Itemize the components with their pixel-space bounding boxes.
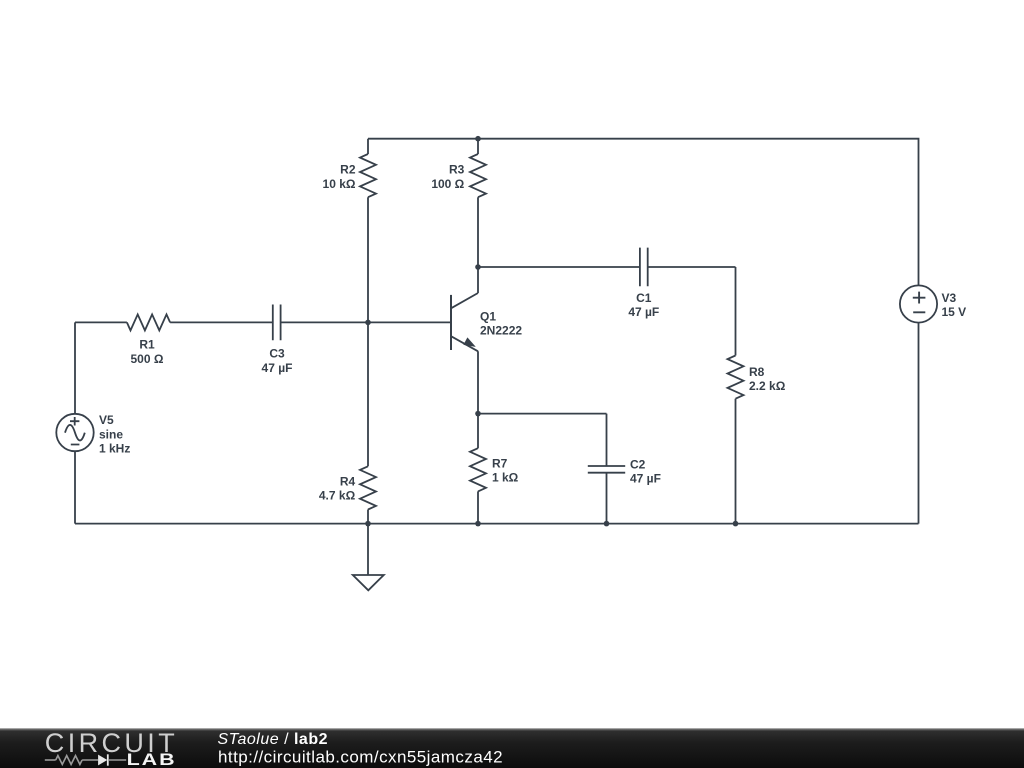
svg-text:100 Ω: 100 Ω (431, 177, 464, 191)
svg-text:10 kΩ: 10 kΩ (323, 177, 356, 191)
svg-text:R7: R7 (492, 456, 508, 470)
svg-text:2N2222: 2N2222 (480, 324, 522, 338)
svg-text:1 kΩ: 1 kΩ (492, 471, 519, 485)
svg-text:R1: R1 (139, 338, 155, 352)
svg-text:C1: C1 (636, 291, 652, 305)
svg-text:R4: R4 (340, 474, 356, 488)
svg-text:2.2 kΩ: 2.2 kΩ (749, 379, 786, 393)
svg-text:1 kHz: 1 kHz (99, 442, 130, 456)
svg-text:4.7 kΩ: 4.7 kΩ (319, 489, 356, 503)
svg-text:C2: C2 (630, 458, 646, 472)
svg-text:V5: V5 (99, 413, 114, 427)
svg-text:47 µF: 47 µF (630, 472, 661, 486)
svg-text:47 µF: 47 µF (628, 305, 659, 319)
svg-text:R2: R2 (340, 163, 356, 177)
svg-text:Q1: Q1 (480, 309, 496, 323)
svg-text:V3: V3 (942, 291, 957, 305)
svg-text:C3: C3 (269, 347, 285, 361)
svg-text:15 V: 15 V (942, 305, 967, 319)
svg-text:LAB: LAB (127, 751, 177, 768)
svg-text:47 µF: 47 µF (262, 361, 293, 375)
svg-text:R8: R8 (749, 365, 765, 379)
svg-text:sine: sine (99, 427, 123, 441)
svg-text:500 Ω: 500 Ω (131, 352, 164, 366)
svg-text:R3: R3 (449, 163, 465, 177)
svg-text:http://circuitlab.com/cxn55jam: http://circuitlab.com/cxn55jamcza42 (218, 747, 503, 766)
svg-text:STaolue / lab2: STaolue / lab2 (218, 731, 328, 748)
